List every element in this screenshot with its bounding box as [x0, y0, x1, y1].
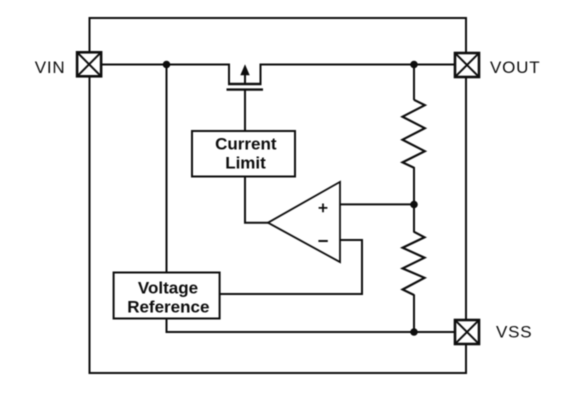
node A junction dot (VIN) [163, 61, 171, 69]
svg-text:VSS: VSS [496, 323, 532, 342]
current limit block [192, 131, 295, 177]
resistor R2 top lead [413, 205, 415, 233]
wire VIN to pass transistor [102, 64, 230, 66]
svg-text:VOUT: VOUT [490, 58, 540, 77]
transistor Q1 bulk arrow [244, 73, 246, 85]
transistor Q1 arrowhead [240, 64, 249, 75]
node D junction dot (VSS) [410, 328, 418, 336]
resistor R1 [403, 100, 425, 168]
wire Voltage Reference to VSS rail [167, 319, 455, 333]
svg-text:Voltage: Voltage [138, 279, 198, 298]
svg-text:Reference: Reference [127, 298, 209, 317]
wire Current Limit to op-amp output [245, 177, 269, 223]
wire gate to Current Limit [244, 90, 246, 131]
transistor Q1 source lead [228, 64, 230, 85]
transistor Q1 drain lead [260, 64, 262, 85]
svg-text:Current: Current [215, 134, 277, 153]
node B junction dot (VOUT) [410, 61, 418, 69]
op-amp U1 triangle [268, 182, 340, 262]
op-amp plus sign [319, 204, 328, 213]
svg-text:VIN: VIN [35, 58, 66, 77]
pin VIN [77, 52, 101, 76]
transistor Q1 gate bar [227, 88, 264, 90]
pin VOUT [455, 53, 479, 77]
resistor R1 bottom lead [413, 167, 415, 205]
resistor R2 [403, 232, 425, 295]
node C junction dot (feedback) [410, 201, 418, 209]
wire transistor to VOUT [260, 64, 455, 66]
resistor R2 bottom lead [413, 295, 415, 333]
op-amp minus sign [318, 240, 327, 242]
voltage reference block [114, 273, 220, 319]
wire op-amp minus input to Voltage Reference [220, 240, 363, 294]
IC outline border [90, 18, 467, 373]
resistor R1 top lead [413, 65, 415, 101]
pin VSS [455, 320, 479, 344]
svg-text:Limit: Limit [225, 153, 266, 172]
wire VIN node down to Voltage Reference [166, 65, 168, 273]
transistor Q1 channel bar [228, 83, 262, 85]
wire op-amp plus input to divider node [340, 203, 414, 205]
